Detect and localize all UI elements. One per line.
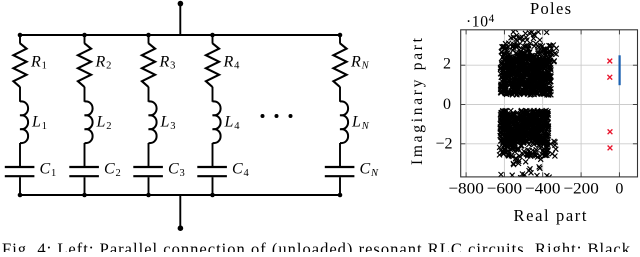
svg-text:−200: −200 [563, 181, 599, 198]
svg-text:−600: −600 [487, 181, 523, 198]
svg-text:Fig. 4: Left: Parallel connect: Fig. 4: Left: Parallel connection of (un… [2, 240, 631, 253]
svg-text:0: 0 [443, 96, 451, 113]
svg-text:−400: −400 [525, 181, 561, 198]
svg-text:0: 0 [615, 181, 623, 198]
svg-text:2: 2 [443, 55, 451, 72]
svg-text:Real part: Real part [514, 206, 587, 225]
svg-text:Poles: Poles [530, 0, 571, 18]
svg-text:−2: −2 [435, 136, 452, 153]
svg-text:Imaginary part: Imaginary part [409, 37, 426, 165]
svg-text:−800: −800 [448, 181, 484, 198]
